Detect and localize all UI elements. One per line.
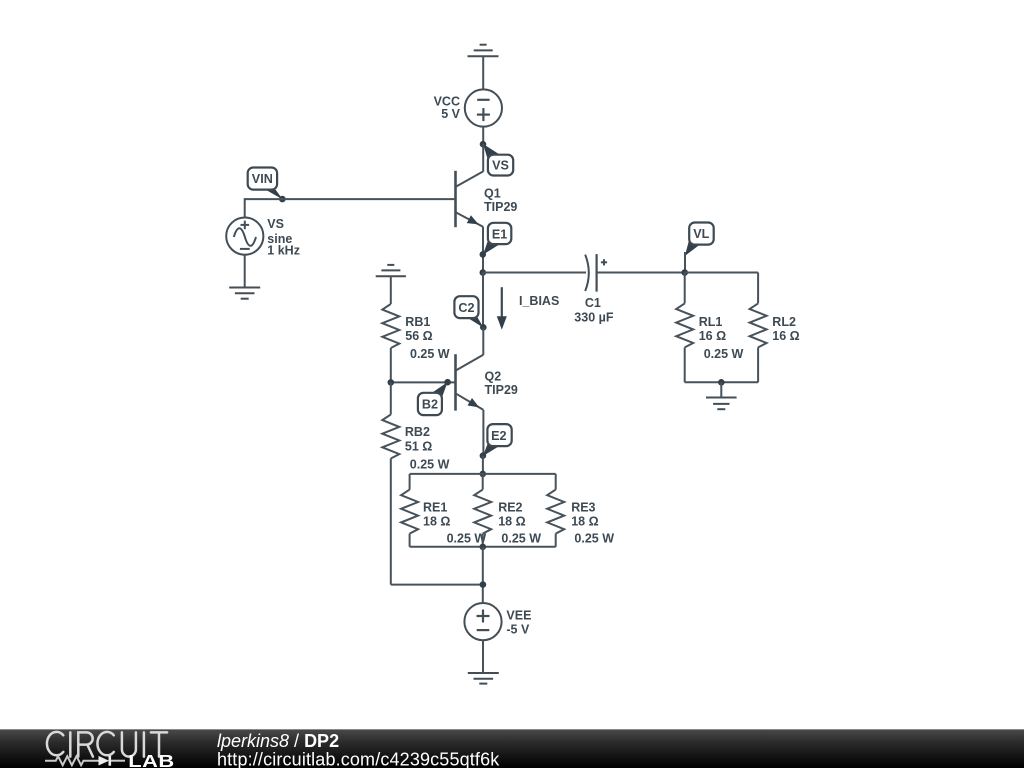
resistor RE1 18 ohm [401, 474, 486, 547]
svg-text:16 Ω: 16 Ω [699, 329, 726, 343]
node VS [480, 141, 487, 148]
wire (C1 to VL node) [597, 272, 685, 274]
wire (RE top rail) [410, 473, 556, 475]
svg-text:0.25 W: 0.25 W [704, 347, 744, 361]
svg-text:16 Ω: 16 Ω [772, 329, 799, 343]
svg-text:RB2: RB2 [405, 425, 430, 439]
svg-text:E2: E2 [491, 429, 506, 443]
ground (above RB1, flipped) [376, 265, 406, 276]
flag VS [483, 144, 513, 176]
svg-text:C1: C1 [585, 296, 601, 310]
node (emitter junction to C1) [480, 269, 487, 276]
resistor RL1 16 ohm [676, 273, 743, 383]
svg-text:0.25 W: 0.25 W [447, 532, 487, 546]
svg-text:Q1: Q1 [484, 187, 501, 201]
svg-text:Q2: Q2 [485, 370, 502, 384]
svg-text:RE3: RE3 [571, 500, 595, 514]
svg-text:C2: C2 [458, 301, 474, 315]
wire (Q2 emitter down) [482, 410, 484, 456]
capacitor C1 330uF [574, 254, 614, 324]
wire [244, 255, 246, 288]
resistor RE2 18 ohm [474, 474, 541, 547]
wire (main vertical down to C2) [482, 273, 484, 328]
svg-text:http://circuitlab.com/c4239c55: http://circuitlab.com/c4239c55qtf6k [217, 749, 500, 769]
ground (top, above VCC) [468, 45, 499, 57]
node (RL ground) [718, 379, 725, 386]
node (RE bottom rail) [480, 544, 487, 551]
svg-text:VS: VS [267, 217, 284, 231]
svg-text:lperkins8 / DP2: lperkins8 / DP2 [217, 731, 339, 751]
flag VL [685, 223, 714, 256]
svg-text:VIN: VIN [252, 172, 273, 186]
voltage source VCC 5V [434, 89, 502, 126]
flag E2 [483, 424, 512, 456]
svg-text:5 V: 5 V [441, 107, 460, 121]
svg-text:RL2: RL2 [772, 315, 796, 329]
svg-text:RB1: RB1 [405, 315, 430, 329]
wire (to C1) [483, 272, 586, 274]
svg-text:TIP29: TIP29 [484, 200, 517, 214]
resistor RB1 56 ohm [382, 276, 450, 382]
flag B2 [418, 382, 448, 415]
node (VEE junction) [480, 581, 487, 588]
svg-text:VL: VL [693, 227, 709, 241]
svg-text:RE1: RE1 [423, 500, 447, 514]
wire (RE bottom rail) [410, 546, 556, 548]
ground (below RL) [706, 398, 737, 410]
svg-text:B2: B2 [422, 398, 438, 412]
wire (Q1 emitter down) [482, 227, 484, 273]
svg-text:I_BIAS: I_BIAS [519, 294, 559, 308]
svg-text:VCC: VCC [434, 94, 460, 108]
node (RE top rail) [480, 471, 487, 478]
svg-text:330 µF: 330 µF [574, 311, 614, 325]
wire [482, 640, 484, 673]
node C2 [480, 324, 487, 331]
flag C2 [454, 296, 483, 328]
svg-text:0.25 W: 0.25 W [410, 458, 450, 472]
logo resistor-diode line [45, 756, 125, 765]
svg-text:LAB: LAB [128, 752, 174, 769]
svg-text:51 Ω: 51 Ω [405, 439, 432, 453]
node VL [681, 269, 688, 276]
current arrow I_BIAS [497, 287, 559, 330]
logo CIRCUIT [47, 732, 167, 757]
wire (down to VEE junction) [482, 547, 484, 603]
node E1 [480, 251, 487, 258]
svg-text:E1: E1 [492, 227, 507, 241]
ground (below VS) [229, 288, 260, 299]
wire (base wire Q1) [245, 198, 456, 200]
node B2 [444, 379, 451, 386]
wire (RB2 bottom across) [391, 584, 483, 586]
wire [482, 144, 484, 172]
svg-text:RE2: RE2 [498, 500, 522, 514]
wire (Q2 base) [391, 381, 456, 383]
voltage source VEE -5V [464, 603, 531, 640]
svg-text:18 Ω: 18 Ω [498, 515, 525, 529]
flag E1 [483, 223, 511, 255]
node (RB1/RB2/base junction) [388, 379, 395, 386]
footer bar [0, 729, 1024, 768]
wire (RL bottom rail) [685, 381, 758, 383]
svg-text:VS: VS [492, 158, 509, 172]
transistor Q1 TIP29 [456, 171, 518, 227]
svg-text:1 kHz: 1 kHz [267, 244, 300, 258]
svg-text:VEE: VEE [506, 609, 531, 623]
svg-text:56 Ω: 56 Ω [405, 329, 432, 343]
wire [244, 198, 246, 217]
flag VIN [248, 168, 283, 200]
wire [482, 56, 484, 89]
voltage source VS sine 1kHz [226, 217, 300, 257]
svg-text:RL1: RL1 [699, 315, 723, 329]
svg-text:18 Ω: 18 Ω [571, 515, 598, 529]
wire [482, 127, 484, 144]
wire (E2 to RE rail) [482, 456, 484, 474]
logo diode [99, 756, 110, 766]
resistor RL2 16 ohm [750, 273, 800, 383]
svg-text:18 Ω: 18 Ω [423, 515, 450, 529]
svg-text:0.25 W: 0.25 W [410, 347, 450, 361]
resistor RE3 18 ohm [547, 474, 614, 547]
svg-text:-5 V: -5 V [506, 623, 530, 637]
svg-text:0.25 W: 0.25 W [501, 532, 541, 546]
node VIN [279, 196, 286, 203]
ground (below VEE) [468, 673, 499, 684]
wire (VL stub) [684, 252, 686, 273]
svg-text:0.25 W: 0.25 W [574, 532, 614, 546]
resistor RB2 51 ohm [382, 382, 449, 584]
node E2 [480, 452, 487, 459]
wire (RL top rail) [685, 272, 758, 274]
transistor Q2 TIP29 [456, 327, 518, 410]
svg-text:TIP29: TIP29 [485, 383, 518, 397]
wire (to ground) [720, 382, 722, 397]
